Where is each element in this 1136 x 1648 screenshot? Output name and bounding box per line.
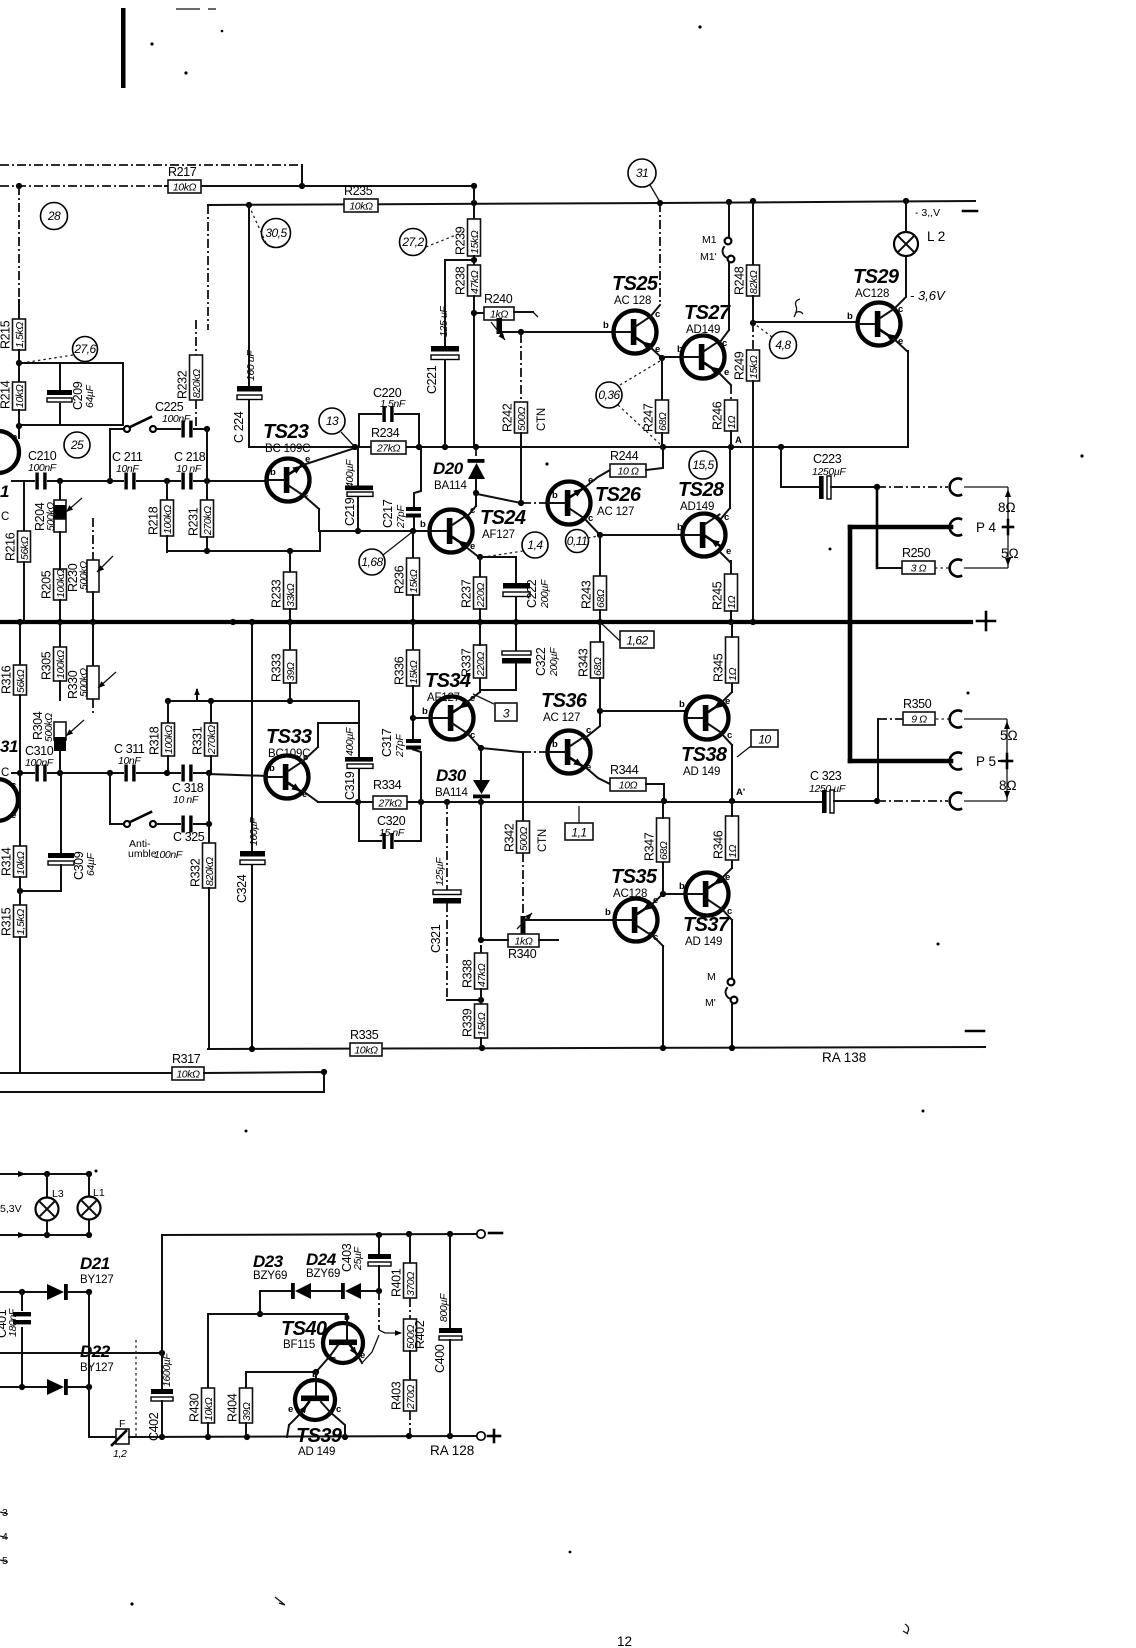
svg-text:R239: R239	[454, 226, 468, 255]
wire: TS39 collector	[330, 1412, 345, 1437]
svg-text:47kΩ: 47kΩ	[469, 270, 481, 294]
svg-text:AF127: AF127	[427, 692, 460, 704]
minus sign PSU	[489, 1232, 502, 1235]
transistor TS35	[615, 899, 658, 942]
svg-text:220Ω: 220Ω	[475, 652, 487, 677]
resistor R338	[480, 946, 482, 953]
wire: C209 loop	[19, 363, 123, 425]
wire	[479, 557, 481, 577]
capacitor C400	[449, 1234, 451, 1329]
wire	[473, 186, 475, 219]
wire: TS40 emitter	[358, 1356, 362, 1363]
svg-text:C209: C209	[71, 381, 85, 410]
transistor TS40	[323, 1323, 363, 1363]
svg-text:D30: D30	[436, 766, 467, 785]
wire	[251, 865, 253, 1049]
svg-text:b: b	[679, 881, 685, 892]
resistor R246	[725, 400, 738, 431]
svg-text:e: e	[12, 432, 17, 443]
lamp rails	[0, 1173, 89, 1175]
wire: regulator base feed	[208, 1313, 347, 1315]
svg-text:1,5nF: 1,5nF	[380, 398, 406, 410]
transistor TS28	[683, 514, 726, 557]
measure bracket lower	[1006, 719, 1008, 801]
svg-text:M: M	[707, 971, 716, 983]
wire: TS26 collector	[584, 518, 600, 535]
capacitor C322	[515, 622, 517, 651]
svg-text:160 uF: 160 uF	[245, 350, 257, 381]
resistor R245	[725, 574, 738, 611]
wire: TS37 collector	[721, 908, 732, 920]
resistor R218	[161, 500, 174, 536]
wire	[245, 1372, 247, 1388]
resistor R236	[407, 558, 420, 595]
svg-text:C223: C223	[813, 452, 842, 466]
svg-text:L 2: L 2	[927, 229, 945, 244]
resistor R344	[610, 778, 646, 791]
svg-text:10kΩ: 10kΩ	[203, 1397, 215, 1421]
wire: TS37 base	[663, 893, 686, 895]
svg-text:15kΩ: 15kΩ	[408, 569, 420, 593]
svg-text:5Ω: 5Ω	[1001, 546, 1019, 561]
switch Anti-rumble	[110, 823, 123, 825]
svg-text:- 3,,V: - 3,,V	[915, 207, 940, 219]
wire: R217 line	[0, 185, 165, 187]
svg-text:31: 31	[636, 166, 648, 180]
svg-text:BY127: BY127	[80, 1362, 114, 1374]
resistor R250	[902, 561, 935, 574]
node label 28	[41, 203, 68, 230]
svg-text:R342: R342	[503, 823, 517, 852]
resistor R305	[54, 647, 67, 681]
svg-text:10kΩ: 10kΩ	[349, 201, 373, 213]
svg-text:400µF: 400µF	[344, 459, 356, 488]
pointer 0,11	[588, 536, 598, 538]
svg-text:500Ω: 500Ω	[516, 407, 528, 431]
svg-text:180nF: 180nF	[7, 1308, 19, 1337]
wire: P5 heavy line	[850, 759, 951, 764]
pointer 30,5	[250, 208, 266, 243]
wire	[0, 1091, 324, 1093]
svg-text:27pF: 27pF	[395, 505, 407, 529]
svg-text:10: 10	[758, 733, 771, 747]
capacitor C220 bridge	[359, 414, 383, 447]
svg-text:8Ω: 8Ω	[999, 778, 1017, 793]
svg-text:TS38: TS38	[681, 744, 728, 766]
svg-text:R404: R404	[226, 1393, 240, 1422]
svg-text:27pF: 27pF	[394, 734, 406, 758]
svg-text:10 nF: 10 nF	[176, 463, 202, 475]
svg-text:4,8: 4,8	[775, 338, 791, 352]
wire: TS38 emitter	[721, 692, 732, 703]
svg-text:C321: C321	[429, 924, 443, 953]
thermistor R242 CTN	[520, 334, 522, 402]
svg-text:BZY69: BZY69	[253, 1270, 287, 1282]
wire	[246, 1371, 316, 1373]
svg-text:R244: R244	[610, 449, 639, 463]
svg-text:BA114: BA114	[435, 787, 468, 799]
svg-text:C402: C402	[147, 1412, 161, 1441]
wire: to TS26 base	[477, 494, 521, 503]
svg-text:100kΩ: 100kΩ	[162, 505, 174, 534]
svg-text:R235: R235	[344, 184, 373, 198]
svg-text:10kΩ: 10kΩ	[176, 1069, 200, 1081]
svg-text:15kΩ: 15kΩ	[408, 660, 420, 684]
pointer 27,2	[426, 231, 466, 247]
resistor R316	[19, 622, 21, 665]
svg-text:1,68: 1,68	[361, 555, 383, 569]
svg-text:c: c	[336, 1404, 341, 1415]
svg-text:R401: R401	[390, 1268, 404, 1297]
wire: TS29 base line	[753, 321, 857, 323]
svg-text:b: b	[677, 522, 683, 533]
svg-text:BF115: BF115	[283, 1339, 315, 1351]
potentiometer R240	[474, 312, 484, 314]
wire: TS28 base	[600, 534, 682, 536]
svg-text:AF127: AF127	[482, 529, 515, 541]
svg-text:c: c	[331, 1354, 336, 1365]
pointer 3	[473, 694, 494, 704]
wire	[88, 1292, 90, 1437]
capacitor C219	[357, 449, 359, 486]
wire	[752, 201, 754, 265]
capacitor C222	[503, 583, 530, 589]
wire: node A' line	[318, 801, 822, 803]
svg-text:3 Ω: 3 Ω	[911, 563, 927, 575]
svg-text:R430: R430	[188, 1393, 202, 1422]
svg-text:L1: L1	[93, 1187, 105, 1199]
svg-text:R205: R205	[40, 570, 54, 599]
wire	[731, 1004, 733, 1049]
pointer 1,68	[383, 533, 411, 555]
svg-text:13: 13	[326, 414, 339, 428]
svg-text:TS27: TS27	[684, 302, 731, 324]
wire: bottom rail	[208, 1047, 985, 1049]
svg-text:R340: R340	[508, 947, 537, 961]
resistor R339	[475, 1004, 488, 1038]
connector P5	[950, 753, 961, 770]
wire	[289, 622, 291, 650]
wire: P4 heavy line	[850, 525, 951, 530]
svg-text:R318: R318	[148, 726, 162, 755]
svg-text:BZY69: BZY69	[306, 1268, 340, 1280]
page top specks	[176, 8, 200, 10]
wire: TS36 collector	[584, 711, 600, 739]
svg-text:CTN: CTN	[537, 829, 549, 852]
wire	[210, 701, 212, 723]
resistor R332	[203, 843, 216, 888]
svg-text:R231: R231	[187, 507, 201, 536]
pointer 1,1	[578, 806, 580, 823]
svg-text:c: c	[11, 780, 16, 791]
svg-text:- 3,6V: - 3,6V	[910, 288, 946, 303]
svg-text:F: F	[119, 1418, 125, 1430]
wire: TS25 emitter to TS27 base	[662, 356, 682, 358]
capacitor C210	[35, 473, 47, 490]
node label 1,4	[522, 532, 548, 558]
svg-text:R249: R249	[733, 351, 747, 380]
capacitor C218	[181, 473, 193, 490]
svg-text:R218: R218	[147, 506, 161, 535]
resistor R334	[373, 796, 407, 809]
resistor R338	[475, 953, 488, 989]
potentiometer R204	[59, 481, 61, 500]
resistor R215	[13, 319, 26, 350]
wire: TS29 collector	[893, 256, 906, 310]
potentiometer R230	[92, 518, 94, 560]
svg-text:10 nF: 10 nF	[173, 794, 199, 806]
svg-text:TS35: TS35	[611, 866, 658, 888]
resistor R243	[594, 576, 607, 610]
transistor TS39	[295, 1380, 335, 1420]
svg-text:C319: C319	[343, 771, 357, 800]
svg-text:R315: R315	[0, 907, 14, 936]
resistor R315	[14, 905, 27, 937]
wire: R235 negative rail	[208, 203, 660, 205]
svg-text:R316: R316	[0, 665, 14, 694]
svg-text:1,1: 1,1	[571, 826, 586, 840]
resistor R314	[19, 773, 21, 846]
wire	[20, 890, 61, 892]
wire: to TS36 base	[481, 748, 521, 752]
wire	[480, 689, 516, 691]
svg-text:R242: R242	[501, 403, 515, 432]
node label 1,68	[359, 549, 385, 575]
svg-text:56kΩ: 56kΩ	[19, 536, 31, 560]
svg-text:27,6: 27,6	[73, 342, 96, 356]
svg-text:TS40: TS40	[281, 1318, 327, 1340]
resistor R317	[172, 1067, 204, 1080]
wire: TS33 collector	[303, 747, 318, 761]
svg-text:AD149: AD149	[680, 501, 714, 513]
svg-text:P 4: P 4	[976, 520, 997, 535]
wire	[661, 358, 663, 400]
wire: TS37 emitter	[721, 868, 732, 879]
svg-text:820kΩ: 820kΩ	[204, 857, 216, 886]
svg-text:500kΩ: 500kΩ	[43, 713, 55, 742]
resistor R250	[877, 567, 902, 569]
wire: node A to TS28 collector	[729, 447, 731, 508]
capacitor C224	[237, 386, 262, 392]
svg-text:1Ω: 1Ω	[726, 416, 738, 429]
node label 1,1	[565, 823, 593, 840]
node label 30,5	[262, 219, 291, 248]
scan artifact bar top-left	[121, 8, 126, 88]
svg-text:200µF: 200µF	[539, 579, 551, 609]
svg-text:500kΩ: 500kΩ	[78, 668, 90, 697]
resistor R401	[404, 1263, 417, 1298]
wire	[479, 678, 481, 692]
diode D20 BA114	[475, 447, 477, 460]
transistor TS37	[686, 873, 729, 916]
svg-text:1600µF: 1600µF	[161, 1353, 173, 1387]
svg-text:100kΩ: 100kΩ	[55, 650, 67, 679]
wire: TS36 emitter + R344	[584, 766, 610, 784]
svg-text:R215: R215	[0, 320, 13, 349]
svg-text:L3: L3	[52, 1188, 64, 1200]
svg-text:1Ω: 1Ω	[727, 845, 739, 858]
svg-text:C221: C221	[425, 365, 439, 394]
resistor R239	[468, 219, 481, 256]
svg-text:R335: R335	[350, 1028, 379, 1042]
svg-text:R250: R250	[902, 546, 931, 560]
svg-text:1,62: 1,62	[626, 634, 648, 648]
resistor R340	[508, 934, 539, 947]
svg-text:15kΩ: 15kΩ	[476, 1012, 488, 1036]
svg-text:c: c	[724, 512, 729, 523]
fuse F 1,2	[89, 1436, 116, 1438]
svg-text:28: 28	[47, 209, 61, 223]
wire	[905, 201, 907, 232]
wire	[599, 535, 601, 576]
minus sign bottom right	[966, 1030, 984, 1033]
svg-text:R314: R314	[0, 847, 14, 876]
svg-text:64µF: 64µF	[85, 852, 97, 876]
svg-text:100nF: 100nF	[162, 413, 191, 425]
svg-text:39Ω: 39Ω	[241, 1402, 253, 1421]
plus sign PSU	[488, 1435, 500, 1438]
wire: TS34 emitter	[466, 692, 480, 703]
capacitor C325	[181, 823, 209, 825]
wire: TS25 collector	[659, 203, 661, 305]
svg-text:R236: R236	[393, 565, 407, 594]
svg-text:1,2: 1,2	[113, 1448, 127, 1460]
transistor TS36	[548, 731, 591, 774]
wire: node A line	[249, 446, 908, 448]
svg-text:10kΩ: 10kΩ	[15, 851, 27, 875]
svg-text:R345: R345	[712, 653, 726, 682]
resistor R240	[484, 307, 514, 320]
resistor R331	[205, 723, 218, 756]
svg-text:64µF: 64µF	[84, 384, 96, 408]
measuring jack M1/M1prime	[728, 201, 730, 237]
resistor R244	[610, 464, 646, 477]
svg-text:TS25: TS25	[612, 273, 659, 295]
node label 10	[751, 730, 778, 747]
svg-text:P 5: P 5	[976, 754, 996, 769]
svg-text:b: b	[679, 699, 685, 710]
wire	[481, 939, 508, 941]
wire	[208, 888, 210, 1049]
svg-text:C 218: C 218	[174, 450, 206, 464]
svg-text:C324: C324	[235, 874, 249, 903]
svg-text:15 nF: 15 nF	[379, 827, 405, 839]
connector (8 ohm upper)	[950, 479, 961, 496]
wire: centre tap	[0, 1352, 162, 1354]
svg-text:b: b	[422, 706, 428, 717]
svg-text:D21: D21	[80, 1254, 110, 1273]
svg-text:M1: M1	[702, 234, 717, 246]
wire	[522, 853, 524, 916]
capacitor C223	[781, 486, 820, 488]
svg-text:R317: R317	[172, 1052, 201, 1066]
svg-text:M': M'	[705, 997, 716, 1009]
wire: PSU bottom rail	[129, 1436, 477, 1437]
svg-text:R343: R343	[577, 648, 591, 677]
svg-text:TS33: TS33	[266, 726, 312, 748]
wire	[730, 431, 732, 447]
wire	[445, 259, 474, 261]
wire: TS33 emitter	[303, 791, 318, 802]
svg-text:TS26: TS26	[595, 484, 642, 506]
svg-text:5Ω: 5Ω	[1000, 728, 1018, 743]
wire: TS25 base	[502, 331, 613, 333]
lamp L1	[78, 1197, 101, 1220]
svg-text:R344: R344	[610, 763, 639, 777]
svg-text:C322: C322	[534, 647, 548, 676]
wire	[780, 447, 782, 487]
node label 1,62	[620, 631, 654, 648]
resistor R346	[726, 816, 739, 860]
svg-text:270kΩ: 270kΩ	[206, 725, 218, 755]
node label 13	[319, 408, 345, 434]
capacitor C321	[446, 800, 448, 891]
node label 25	[64, 432, 90, 458]
svg-text:31: 31	[0, 737, 18, 756]
svg-text:umble: umble	[128, 848, 157, 860]
svg-text:b: b	[269, 763, 275, 774]
pointer 27,6	[22, 355, 73, 363]
wiper arrow R402	[378, 1291, 380, 1330]
svg-text:125 uF: 125 uF	[438, 306, 450, 337]
svg-text:R305: R305	[40, 651, 54, 680]
resistor R216	[23, 481, 25, 531]
wire	[480, 802, 482, 940]
resistor R237	[474, 577, 487, 609]
resistor R234	[371, 441, 406, 454]
diode D23 BZY69	[260, 1290, 291, 1292]
svg-text:RA 128: RA 128	[430, 1443, 474, 1458]
wire	[444, 360, 446, 447]
svg-text:R347: R347	[643, 832, 657, 861]
svg-text:160µF: 160µF	[248, 817, 260, 846]
svg-text:220Ω: 220Ω	[475, 583, 487, 608]
svg-text:R246: R246	[711, 401, 725, 430]
svg-text:10Ω: 10Ω	[619, 780, 638, 792]
svg-text:BC 109C: BC 109C	[265, 443, 310, 455]
wire: TS28 emitter	[719, 551, 730, 562]
svg-text:C310: C310	[25, 744, 54, 758]
wire: TS39 base	[315, 1372, 317, 1380]
wire: TS24 emitter	[466, 547, 480, 558]
svg-text:AD 149: AD 149	[685, 936, 722, 948]
resistor R318	[162, 723, 175, 756]
resistor R317	[0, 1072, 172, 1074]
resistor R350	[877, 719, 879, 801]
pointer 4,8	[756, 325, 772, 337]
svg-text:e: e	[724, 367, 729, 378]
svg-text:39Ω: 39Ω	[285, 662, 297, 681]
svg-text:R240: R240	[484, 292, 513, 306]
svg-text:R350: R350	[903, 697, 932, 711]
svg-text:100nF: 100nF	[28, 462, 57, 474]
svg-text:10 Ω: 10 Ω	[618, 466, 639, 478]
wire: TS33 base	[209, 774, 267, 776]
resistor R316	[14, 665, 27, 695]
wire: heavy tap	[876, 487, 879, 568]
svg-text:800µF: 800µF	[438, 1293, 450, 1322]
svg-text:15,5: 15,5	[692, 458, 714, 472]
svg-text:A': A'	[736, 787, 745, 798]
svg-text:R339: R339	[461, 1008, 475, 1037]
capacitor C403	[378, 1235, 380, 1255]
node label 3	[495, 703, 517, 721]
svg-text:820kΩ: 820kΩ	[191, 369, 203, 398]
svg-text:M1': M1'	[700, 251, 717, 263]
resistor R339	[480, 1000, 482, 1004]
wire: TS33 supply node line	[168, 700, 359, 702]
wire: TS27 collector	[728, 263, 730, 330]
